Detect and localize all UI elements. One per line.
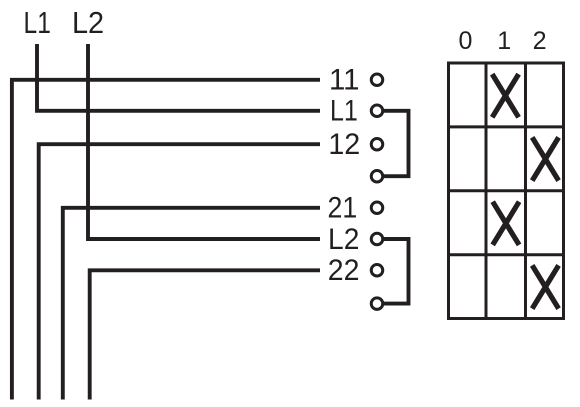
- terminal contact L2: [371, 233, 383, 245]
- node L2: [72, 5, 104, 40]
- svg-text:0: 0: [459, 27, 473, 55]
- terminal contact pole-2 (jumper end): [371, 298, 383, 310]
- svg-text:11: 11: [329, 64, 360, 97]
- wire 11 (horizontal to terminal 11, down to bottom at left): [12, 80, 320, 400]
- contact table row divider 2/3: [447, 189, 565, 192]
- contact table outer border: [449, 63, 564, 319]
- wire L2 (from L2 input down, corner to terminal L2): [88, 44, 320, 239]
- wire 21 (horizontal to terminal 21, down line to bottom): [63, 208, 320, 400]
- terminal contact 11: [371, 74, 383, 86]
- svg-text:21: 21: [328, 192, 358, 225]
- svg-text:2: 2: [533, 27, 547, 55]
- wire 22 (horizontal to terminal 22, down line to bottom): [90, 270, 320, 399]
- terminal contact 21: [371, 202, 383, 214]
- wire jumper L1-pole (bracket from terminal L1 to pole contact): [383, 111, 409, 176]
- svg-text:22: 22: [328, 254, 360, 287]
- wire L1 (from L1 input down, corner to terminal L1): [37, 44, 320, 111]
- contact table row divider 1/2: [447, 125, 565, 128]
- X mark row2 pos2: [532, 137, 558, 180]
- svg-text:1: 1: [497, 27, 511, 55]
- svg-text:L2: L2: [72, 5, 104, 40]
- contact table column divider 0/1: [485, 63, 488, 319]
- wire 12 (horizontal to terminal 12, down line to bottom): [39, 144, 320, 399]
- svg-text:12: 12: [328, 128, 360, 161]
- X mark row1 pos1: [492, 74, 518, 117]
- contact table row divider 3/4: [447, 253, 565, 256]
- X mark row4 pos2: [532, 265, 558, 308]
- X mark row3 pos1: [493, 202, 519, 245]
- terminal contact 22: [371, 265, 383, 277]
- contact X marks: [492, 74, 558, 309]
- wire jumper L2-pole (bracket from terminal L2 to pole contact): [383, 239, 409, 304]
- terminal contact 12: [371, 138, 383, 150]
- svg-text:L1: L1: [24, 5, 51, 40]
- terminal labels: [328, 64, 361, 288]
- terminal contact pole-1 (jumper end): [371, 170, 383, 182]
- terminal contact L1: [371, 105, 383, 117]
- contact table column divider 1/2: [524, 63, 527, 319]
- svg-text:L2: L2: [328, 223, 359, 256]
- node L1: [24, 5, 51, 40]
- svg-text:L1: L1: [330, 95, 358, 128]
